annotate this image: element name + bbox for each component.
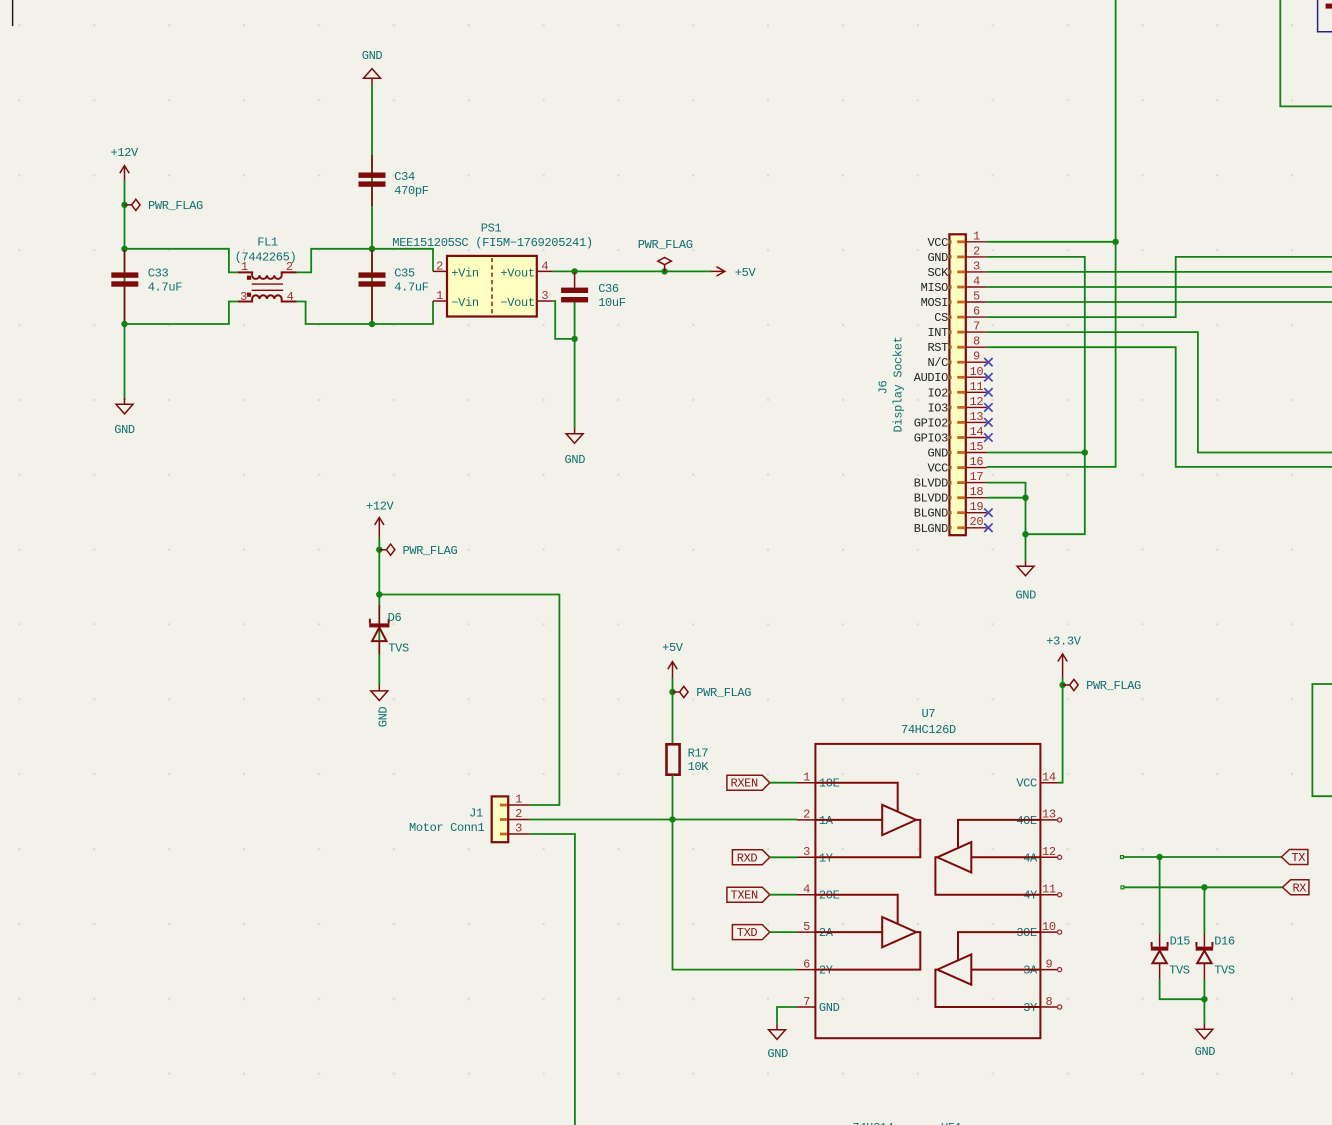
svg-text:Display Socket: Display Socket [892,337,906,433]
U7 pin 14 VCC [1016,771,1058,791]
svg-text:TXEN: TXEN [730,889,758,903]
svg-text:1: 1 [803,771,810,785]
svg-text:4: 4 [803,883,810,897]
junction D15/D16 gnd [1201,996,1207,1002]
svg-text:12: 12 [1042,845,1056,859]
svg-text:VCC: VCC [927,236,948,250]
U7 pin 11 4Y [1023,883,1062,903]
J1 pin 3 [500,822,530,836]
svg-text:3: 3 [803,845,810,859]
power symbol +5V (right arrow) [711,266,757,280]
svg-text:13: 13 [970,410,984,424]
svg-text:J1: J1 [469,807,483,821]
svg-text:11: 11 [1042,883,1056,897]
U7 2A route [815,931,882,933]
J6 pin 14 GPIO3 [914,425,993,446]
J6 pin 10 AUDIO [914,365,993,385]
svg-text:3: 3 [973,259,980,273]
svg-text:TXD: TXD [737,926,758,940]
ground GND2 (above C34) [362,49,383,85]
svg-text:−Vin: −Vin [451,296,479,310]
wire RXEN to U7 pin1 [770,782,797,784]
global label RX [1283,880,1309,896]
J6 pin 5 MOSI [921,290,987,311]
svg-text:D16: D16 [1214,934,1235,948]
wire J6 pin1 VCC to top edge and pin16 [987,0,1116,467]
hierarchical frame edge (green, right middle) [1312,684,1332,796]
power flag PF4 [669,686,751,700]
svg-text:GND: GND [565,453,586,467]
J6 pin 4 MISO [921,275,987,296]
wire C33 to FL1 pin1 [125,249,238,273]
global label TXD [732,925,769,941]
ground GND1 (below C33) [114,398,135,437]
U7 pin 2 1A [797,808,834,828]
U7 pin 7 GND [797,995,840,1015]
J1 pin 2 [500,807,530,821]
svg-text:INT: INT [927,326,948,340]
svg-text:TVS: TVS [1169,963,1190,977]
capacitor C33 [111,250,182,322]
svg-text:+3.3V: +3.3V [1046,635,1081,649]
svg-text:PWR_FLAG: PWR_FLAG [638,238,693,252]
sheet border mark top-left [12,0,14,26]
U7 buffer 4 triangle [937,954,971,984]
no-connect X pin 13 [984,418,992,426]
svg-text:PWR_FLAG: PWR_FLAG [696,686,751,700]
junction C36 top [571,268,577,274]
wire J6 pin5 MOSI to right edge [987,301,1332,303]
svg-text:C35: C35 [394,267,415,281]
junction J6 gnd node [1022,531,1028,537]
junction node C33 bottom [121,321,127,327]
J1 pin 1 [500,793,530,807]
J6 pin 6 CS [934,305,986,326]
junction node A [369,246,375,252]
wire RX to D16 [1203,887,1205,934]
J6 pin 20 BLGND [914,515,993,536]
power symbol +12V [111,146,140,181]
wire PS1 -Vout to C36 gnd node [552,301,574,339]
J6 pin 9 N/C [927,350,992,371]
svg-text:VCC: VCC [1016,777,1037,791]
svg-text:12: 12 [970,395,984,409]
svg-text:10: 10 [1042,920,1056,934]
ground GND4 (below J6) [1015,561,1036,603]
svg-text:TX: TX [1291,851,1305,865]
svg-text:10uF: 10uF [598,296,626,310]
svg-text:+5V: +5V [662,641,684,655]
svg-text:6: 6 [973,305,980,319]
svg-text:N/C: N/C [927,356,948,370]
junction node B [369,321,375,327]
wire gnd node down [1203,999,1205,1024]
capacitor C35 [359,250,429,322]
junction node +12V/C33 [121,246,127,252]
no-connect X pin 14 [984,433,992,441]
ground GND3 (below C36) [565,428,586,467]
svg-text:RST: RST [927,341,948,355]
svg-text:2: 2 [286,260,293,274]
connector J6 Display Socket [877,234,966,535]
svg-text:14: 14 [970,425,984,439]
svg-text:RXEN: RXEN [730,777,758,791]
ground GND6 (U7 pin7) [767,1024,788,1061]
svg-text:3: 3 [541,289,548,303]
wire U7 VCC pin14 to +3.3V [1058,678,1063,783]
svg-text:13: 13 [1042,808,1056,822]
text box corner (navy, top right) [1318,0,1332,32]
wire FL1 pin4 to node B [297,302,373,325]
J6 pin 2 GND [927,244,986,265]
wire TXD to U7 pin5 [770,931,797,933]
svg-text:5: 5 [973,290,980,304]
U7 buffer3 output to 2Y [815,932,920,970]
U7 pin 6 2Y [797,957,833,977]
wire RX net [1121,886,1283,889]
svg-text:+Vout: +Vout [500,267,534,281]
J6 pin 15 GND [927,440,986,461]
svg-text:74HC126D: 74HC126D [901,723,956,737]
svg-text:7: 7 [803,995,810,1009]
svg-text:PWR_FLAG: PWR_FLAG [148,199,203,213]
svg-text:4: 4 [541,259,548,273]
power symbol +12V (second) [366,500,395,538]
svg-text:GND: GND [362,49,383,63]
svg-text:1: 1 [241,260,248,274]
svg-text:1: 1 [973,229,980,243]
no-connect X pin 9 [984,358,992,366]
wire D16 to gnd node [1203,979,1205,999]
ground GND5 (below D6) [371,686,391,728]
U7 buffer1 output to 1Y [815,820,920,857]
J6 pin 1 VCC [927,229,986,250]
junction J6 pin1 [1112,239,1118,245]
no-connect X pin 20 [984,524,992,533]
global label RXEN [727,775,770,791]
resistor R17 10K [667,744,710,774]
wire J6 pin18 BLVDD [987,498,1026,535]
diode D6 TVS [369,605,409,656]
svg-text:11: 11 [970,380,984,394]
svg-text:R17: R17 [688,747,709,761]
U7 pin 1 1OE [797,771,840,791]
junction RX/D16 [1201,884,1207,890]
svg-text:MISO: MISO [921,281,949,295]
svg-text:470pF: 470pF [394,184,428,198]
svg-text:PS1: PS1 [481,221,502,235]
svg-text:MOSI: MOSI [921,296,948,310]
diode D16 TVS [1196,934,1235,979]
svg-text:TVS: TVS [388,642,409,656]
wire J6 pin8 RST to right edge [987,347,1332,467]
wire FL1 pin2 to node A [297,249,373,273]
power symbol +3.3V [1046,635,1081,678]
svg-text:20: 20 [970,515,984,529]
wire R17 bottom to U7 2Y [673,775,798,970]
svg-text:U7: U7 [922,707,936,721]
no-connect X pin 19 [984,509,992,517]
U7 pin 3 1Y [797,845,833,865]
hierarchical frame corner (green, top right) [1280,0,1332,106]
svg-text:C34: C34 [394,170,415,184]
svg-text:5: 5 [803,920,810,934]
junction J6 pin15 node [1082,449,1088,455]
wire J6 pin7 INT to right edge [987,332,1332,452]
svg-text:IO2: IO2 [927,386,948,400]
svg-text:GPIO3: GPIO3 [914,432,948,446]
svg-text:J6: J6 [877,381,891,395]
svg-text:−Vout: −Vout [500,296,534,310]
wire node A down [371,249,373,324]
U7 3OE route [958,932,1040,961]
power flag PF3 [376,544,457,558]
svg-text:14: 14 [1042,771,1056,785]
U7 buffer 2 triangle [937,842,971,872]
svg-text:+Vin: +Vin [451,267,479,281]
inductor FL1 (7442265) common-mode choke [235,236,297,304]
wire J6 gnd node down [1025,534,1027,561]
wire J1 pin3 down to bottom edge [530,834,575,1125]
svg-text:8: 8 [1045,995,1052,1009]
svg-text:C36: C36 [598,282,619,296]
U7 4A route [971,856,1040,858]
svg-text:6: 6 [803,957,810,971]
svg-text:C33: C33 [148,267,169,281]
svg-text:RX: RX [1292,881,1306,895]
svg-text:PWR_FLAG: PWR_FLAG [403,544,458,558]
svg-text:16: 16 [970,455,984,469]
wire J6 pin17 BLVDD [987,483,1026,498]
U7 pin 5 2A [797,920,834,940]
svg-text:18: 18 [970,485,984,499]
dc-dc converter PS1 MEE1S1205SC [392,221,593,316]
IC U7 74HC126D body [815,707,1040,1038]
wire J1 pin2 to U7 1A [530,819,797,821]
wire TX to D15 [1159,857,1161,934]
svg-text:3: 3 [515,822,522,836]
wire U7 GND pin7 [777,1007,797,1024]
svg-text:GPIO2: GPIO2 [914,416,948,430]
svg-text:MEE151205SC (FI5M−1769205241): MEE151205SC (FI5M−1769205241) [392,236,593,250]
svg-text:2: 2 [973,244,980,258]
svg-text:7: 7 [973,320,980,334]
junction C36/-Vout [571,336,577,342]
wire node B to PS1 -Vin [372,301,433,324]
svg-text:4: 4 [973,275,980,289]
power flag PF5 [1059,679,1141,693]
svg-text:FL1: FL1 [257,236,278,250]
svg-text:AUDIO: AUDIO [914,371,948,385]
wire PS1 +Vout to +5V [552,270,711,272]
svg-text:8: 8 [973,335,980,349]
no-connect X pin 12 [984,403,992,411]
wire C33 to FL1 pin3 [125,302,238,325]
wire node A to PS1 +Vin [372,249,433,272]
J6 pin 17 BLVDD [914,470,987,491]
U7 2OE route [815,895,897,924]
svg-text:Motor Conn1: Motor Conn1 [409,821,485,835]
J6 pin 18 BLVDD [914,485,987,506]
svg-text:1: 1 [515,793,522,807]
svg-text:4: 4 [287,290,294,304]
U7 pin 4 2OE [797,883,840,903]
svg-text:74HC14: 74HC14 [852,1121,893,1125]
U7 pin 10 3OE [1016,920,1061,940]
no-connect X pin 11 [984,388,992,396]
U7 3A route [971,969,1040,971]
svg-text:D15: D15 [1170,934,1191,948]
svg-text:IO3: IO3 [927,401,948,415]
svg-text:BLVDD: BLVDD [914,492,948,506]
wire J6 pin3 SCK to right edge [987,271,1332,273]
svg-text:9: 9 [973,350,980,364]
component fragment top-right corner [1326,4,1332,9]
U7 1A route [815,819,882,821]
U7 buffer4 output to 3Y [935,970,1040,1007]
svg-text:17: 17 [970,470,984,484]
wire C36 bottom [574,302,576,428]
J6 pin 19 BLGND [914,500,993,521]
connector J1 Motor Conn1 [409,796,508,842]
wire D6 node to J1 pin1 [379,595,559,806]
U7 buffer2 output to 4Y [935,857,1040,894]
svg-text:2: 2 [803,808,810,822]
svg-text:CS: CS [934,311,948,325]
wire +12V to D6 [378,538,380,686]
power symbol +5V (above R17) [662,641,684,677]
svg-text:BLGND: BLGND [914,507,948,521]
svg-text:BLVDD: BLVDD [914,477,948,491]
svg-text:GND: GND [819,1001,840,1015]
svg-text:GND: GND [1015,588,1036,602]
svg-text:PWR_FLAG: PWR_FLAG [1086,679,1141,693]
svg-text:15: 15 [970,440,984,454]
svg-text:1: 1 [436,289,443,303]
U7 pin 13 4OE [1016,808,1061,828]
svg-text:BLGND: BLGND [914,522,948,536]
capacitor C34 [359,155,429,206]
J6 pin 16 VCC [927,455,986,476]
wire J6 pin15 GND [987,452,1085,454]
global label RXD [732,850,769,866]
wire +5V to R17 [672,678,674,745]
wire J6 pin6 CS to right edge [987,257,1332,317]
svg-text:D6: D6 [388,611,402,625]
svg-text:2: 2 [515,807,522,821]
svg-text:10: 10 [970,365,984,379]
svg-text:19: 19 [970,500,984,514]
U7 buffer 3 triangle [882,917,916,947]
junction J6 pin18 node [1022,495,1028,501]
svg-text:GND: GND [927,447,948,461]
power flag PF1 [121,199,203,213]
diode D15 TVS [1151,934,1190,979]
U7 pin 12 4A [1023,845,1062,865]
junction R17/J1/U7 node [669,816,675,822]
svg-text:9: 9 [1045,957,1052,971]
junction D6 node [376,591,382,597]
svg-text:TVS: TVS [1214,963,1235,977]
svg-text:SCK: SCK [927,266,949,280]
U7 pin 9 3A [1023,957,1062,977]
U7 buffer 1 triangle [882,805,916,835]
U7 1OE route [815,783,897,812]
svg-text:+5V: +5V [735,266,757,280]
svg-text:3: 3 [240,290,247,304]
capacitor C36 [561,272,626,320]
svg-text:GND: GND [114,423,135,437]
svg-text:GND: GND [927,251,948,265]
wire GND2 to node A [371,85,373,249]
svg-text:U5A: U5A [941,1121,963,1125]
J6 pin 13 GPIO2 [914,410,993,431]
svg-text:2: 2 [436,259,443,273]
J6 pin 7 INT [927,320,986,341]
U7 pin 8 3Y [1023,995,1062,1015]
wire RXD to U7 pin3 [770,856,797,858]
global label TXEN [727,887,770,903]
global label TX [1281,850,1308,866]
wire TX net [1121,856,1282,859]
junction TX/D15 [1156,854,1162,860]
J6 pin 3 SCK [927,259,986,280]
no-connect X pin 10 [984,373,992,381]
svg-text:GND: GND [377,707,391,728]
svg-text:VCC: VCC [927,462,948,476]
U7 4OE route [958,820,1040,849]
wire +12V vertical [124,181,126,401]
svg-text:+12V: +12V [366,500,395,514]
wire TXEN to U7 pin4 [770,894,797,896]
J6 pin 12 IO3 [927,395,992,416]
wire J6 pin2 GND down [987,257,1085,534]
power flag PF2 [638,238,693,272]
svg-text:4.7uF: 4.7uF [394,280,428,294]
J6 pin 11 IO2 [927,380,992,401]
svg-text:+12V: +12V [111,146,140,160]
svg-text:GND: GND [767,1047,788,1061]
svg-text:4.7uF: 4.7uF [148,280,182,294]
wire J6 pin4 MISO to right edge [987,286,1332,288]
svg-text:RXD: RXD [737,851,758,865]
junction PWR_FLAG node [661,268,667,274]
ground GND7 (below D16) [1195,1024,1216,1059]
svg-text:10K: 10K [688,760,710,774]
J6 pin 8 RST [927,335,986,356]
wire D15 to gnd node [1160,979,1205,999]
svg-text:GND: GND [1195,1045,1216,1059]
